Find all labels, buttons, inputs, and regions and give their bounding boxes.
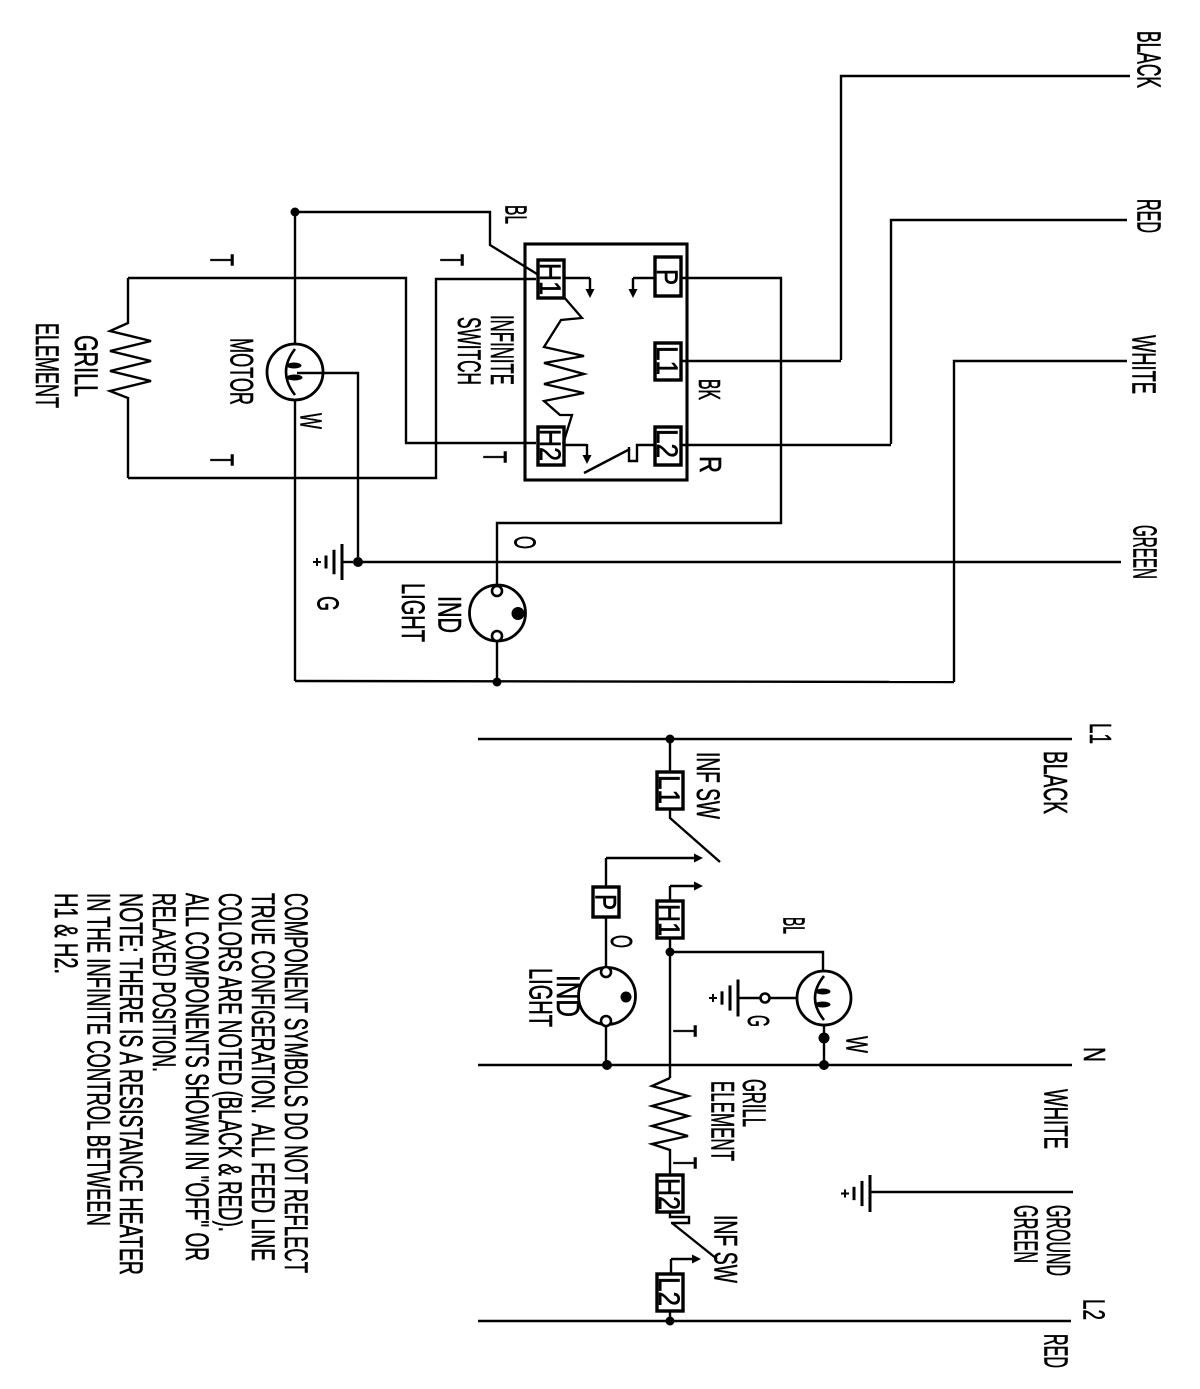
wire: motor to N rail (ladder) xyxy=(823,1026,825,1065)
svg-text:H2: H2 xyxy=(533,429,566,461)
wire: motor G lead xyxy=(297,373,358,557)
svg-text:T: T xyxy=(434,254,471,266)
svg-text:W: W xyxy=(293,413,328,429)
grill element: top lead wire to H2 xyxy=(128,278,536,443)
wire+arrow: P to switch blade (ladder) xyxy=(606,857,696,859)
indicator light DS2: filament dot xyxy=(621,992,632,1003)
motor M1: outline circle xyxy=(267,344,323,400)
svg-text:NOTE: THERE IS A RESISTANCE HE: NOTE: THERE IS A RESISTANCE HEATER xyxy=(113,893,149,1275)
wire+contact arrow at H1 xyxy=(564,277,590,279)
wire: P to indicator light (O wire) xyxy=(497,278,781,586)
svg-text:WHITE: WHITE xyxy=(1038,1089,1075,1149)
wire: ground to green node xyxy=(342,561,353,563)
svg-text:RELAXED POSITION.: RELAXED POSITION. xyxy=(146,893,182,1072)
node: L2 rail tap xyxy=(666,1317,675,1326)
wire+contact arrow at H2 xyxy=(564,444,587,446)
wire: bottom rail (motor to white riser) xyxy=(295,681,954,682)
wire: H1 node to grill element (ladder) xyxy=(669,952,671,1078)
terminal P box (ladder) xyxy=(593,887,619,917)
svg-text:G: G xyxy=(741,1015,776,1027)
svg-text:H2: H2 xyxy=(652,1178,685,1210)
svg-text:LIGHT: LIGHT xyxy=(395,583,431,642)
svg-text:L1: L1 xyxy=(652,775,685,804)
svg-text:H1: H1 xyxy=(533,263,566,295)
terminal L2 box (top) xyxy=(655,427,681,465)
svg-text:LIGHT: LIGHT xyxy=(523,968,559,1027)
wire+contact arrow at P xyxy=(633,277,655,279)
terminal L1 box (ladder) xyxy=(657,772,683,809)
motor M2: inner winding arc xyxy=(815,976,824,1020)
ground symbol (ladder motor) xyxy=(737,980,740,1017)
svg-text:ELEMENT: ELEMENT xyxy=(29,323,65,408)
svg-text:INFINITE: INFINITE xyxy=(484,315,520,385)
wire: L2 terminal to red riser xyxy=(681,444,891,446)
indicator light DS2: bottom terminal xyxy=(601,1016,611,1026)
wire: BLACK feed (top diagram) xyxy=(841,76,1130,360)
resistance heater H1-H2 (inside switch) xyxy=(544,296,584,444)
svg-text:L2: L2 xyxy=(1076,1299,1111,1320)
svg-text:O: O xyxy=(507,536,542,549)
svg-text:BK: BK xyxy=(692,379,727,400)
terminal H1 box (ladder) xyxy=(657,901,683,938)
motor M2: winding loop b xyxy=(815,1002,831,1008)
node: H1 junction (ladder) xyxy=(666,948,675,957)
svg-text:P: P xyxy=(589,894,622,910)
svg-text:IND: IND xyxy=(432,596,468,633)
svg-text:SWITCH: SWITCH xyxy=(451,317,487,385)
motor M2: bottom terminal dot xyxy=(819,1033,830,1044)
L2 switch blade xyxy=(584,449,630,473)
svg-text:BLACK: BLACK xyxy=(1037,751,1074,814)
svg-text:L2: L2 xyxy=(650,429,683,458)
svg-text:TRUE CONFIGERATION. ALL FEED: TRUE CONFIGERATION. ALL FEED LINE xyxy=(245,893,281,1261)
svg-text:BLACK: BLACK xyxy=(1131,31,1168,88)
svg-text:GRILL: GRILL xyxy=(68,335,104,397)
svg-text:RED: RED xyxy=(1131,199,1168,233)
svg-text:BL: BL xyxy=(498,205,533,224)
wire: light to N rail (ladder) xyxy=(605,1026,607,1065)
svg-text:W: W xyxy=(839,1036,874,1053)
terminal L1 box (top) xyxy=(655,343,681,380)
svg-text:P: P xyxy=(650,269,683,285)
wire: rail to L1 terminal (ladder) xyxy=(669,739,671,772)
indicator light DS2: top terminal xyxy=(601,967,611,977)
grill element: resistor zigzag xyxy=(110,278,151,478)
motor M1: winding loop a xyxy=(287,363,302,369)
svg-text:BL: BL xyxy=(776,917,811,934)
svg-text:MOTOR: MOTOR xyxy=(224,338,260,405)
rail L1 (ladder) xyxy=(478,738,1072,740)
switch blade at L1 (ladder) xyxy=(670,809,720,862)
wire: GREEN feed (top diagram) xyxy=(358,561,1121,563)
wire+arrow: H1 contact (ladder) xyxy=(670,885,696,887)
svg-text:ALL COMPONENTS SHOWN IN "OFF": ALL COMPONENTS SHOWN IN "OFF" OR xyxy=(179,893,215,1261)
grill element (ladder): resistor zigzag xyxy=(652,1078,688,1175)
terminal H1 box xyxy=(538,260,564,298)
wire: RED feed (top diagram) xyxy=(891,220,1127,444)
svg-text:T: T xyxy=(667,1157,704,1169)
node: L1 rail tap xyxy=(666,735,675,744)
wire: motor bottom to bottom rail xyxy=(294,399,296,681)
svg-text:H1 & H2.: H1 & H2. xyxy=(48,893,84,974)
svg-text:INF SW: INF SW xyxy=(690,752,726,819)
wire: BL from node to infinite switch H1 xyxy=(295,212,537,274)
indicator light DS1: bulb circle xyxy=(470,585,526,641)
indicator light DS1: top terminal xyxy=(492,586,502,596)
wire: WHITE feed (top diagram) xyxy=(954,361,1127,682)
svg-text:R: R xyxy=(693,456,728,473)
wire: node to motor top xyxy=(294,212,296,345)
terminal P box (top) xyxy=(655,257,681,296)
rail N (ladder) xyxy=(478,1064,1072,1066)
svg-text:N: N xyxy=(1077,1047,1112,1062)
svg-text:RED: RED xyxy=(1038,1334,1075,1368)
svg-text:L2: L2 xyxy=(652,1277,685,1306)
indicator light DS2: bulb circle xyxy=(579,968,636,1025)
svg-text:T: T xyxy=(477,451,514,463)
node: light/N-rail junction xyxy=(602,1060,612,1070)
svg-text:T: T xyxy=(204,254,241,266)
terminal H2 box (ladder) xyxy=(657,1175,683,1212)
svg-text:ELEMENT: ELEMENT xyxy=(705,1081,741,1161)
infinite switch U1: body box xyxy=(525,244,687,480)
terminal ring: motor ground xyxy=(761,994,770,1003)
motor M2: winding loop a xyxy=(816,989,831,995)
motor M1: winding loop b xyxy=(287,375,303,381)
svg-text:INF SW: INF SW xyxy=(708,1215,744,1283)
node: light/rail junction xyxy=(493,678,502,687)
indicator light DS1: filament dot xyxy=(512,607,525,620)
motor M1: inner winding arc xyxy=(286,349,295,395)
svg-text:T: T xyxy=(667,1025,704,1037)
wire: L1 terminal to black riser xyxy=(681,360,841,362)
svg-text:COMPONENT SYMBOLS DO NOT REFLE: COMPONENT SYMBOLS DO NOT REFLECT xyxy=(278,893,314,1273)
ground symbol (top diagram) xyxy=(341,544,344,580)
svg-text:GREEN: GREEN xyxy=(1008,1205,1045,1263)
svg-text:T: T xyxy=(204,454,241,466)
wire: L2 terminal to rail xyxy=(669,1311,671,1321)
wire: H1 terminal to node xyxy=(669,938,671,952)
wire: ground to motor case xyxy=(739,997,760,999)
wire: ring to motor xyxy=(770,997,797,999)
svg-text:L1: L1 xyxy=(1083,723,1118,744)
wire: light bottom to rail xyxy=(496,641,498,682)
wire: ground stub xyxy=(871,1191,1073,1193)
node: BL junction above motor xyxy=(291,208,300,217)
H2 contact hook (ladder) xyxy=(670,1212,689,1223)
wire: node to BL motor (ladder) xyxy=(670,952,823,970)
svg-text:L1: L1 xyxy=(650,346,683,375)
terminal H2 box xyxy=(538,427,564,465)
svg-text:G: G xyxy=(310,596,345,611)
rail L2 (ladder) xyxy=(478,1320,1071,1322)
svg-text:O: O xyxy=(604,935,639,948)
ground symbol (supply ground) xyxy=(869,1175,872,1212)
node: ground/green junction xyxy=(353,557,363,567)
node: motor/N-rail junction xyxy=(819,1060,829,1070)
svg-text:WHITE: WHITE xyxy=(1126,335,1163,394)
wire+arrow: L2 contact (ladder) xyxy=(671,1258,694,1260)
svg-text:IN THE INFINITE CONTROL BETWEE: IN THE INFINITE CONTROL BETWEEN xyxy=(81,893,117,1226)
grill element: bottom lead wire to H1 xyxy=(128,279,536,478)
svg-text:GROUND: GROUND xyxy=(1040,1205,1077,1276)
svg-text:H1: H1 xyxy=(652,904,685,936)
svg-text:COLORS ARE NOTED (BLACK & RED): COLORS ARE NOTED (BLACK & RED). xyxy=(212,893,248,1232)
terminal L2 box (ladder) xyxy=(657,1274,683,1311)
svg-text:GREEN: GREEN xyxy=(1127,525,1164,579)
switch blade at H2 (ladder) xyxy=(672,1223,717,1259)
motor M2 (ladder): outline circle xyxy=(797,971,851,1025)
L2 moving contact hook xyxy=(629,445,655,461)
wire: P to indicator light (ladder) xyxy=(605,917,607,967)
indicator light DS1: bottom terminal xyxy=(492,631,502,641)
